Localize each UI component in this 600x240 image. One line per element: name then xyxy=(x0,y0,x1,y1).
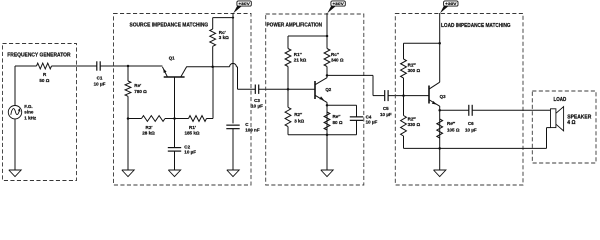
svg-text:LOAD: LOAD xyxy=(554,97,567,103)
svg-text:C1: C1 xyxy=(97,76,103,81)
svg-text:LOAD IMPEDANCE MATCHING: LOAD IMPEDANCE MATCHING xyxy=(441,23,511,29)
svg-text:R2′: R2′ xyxy=(146,125,154,130)
svg-text:Re′: Re′ xyxy=(134,83,142,88)
resistor R1' 185k xyxy=(175,118,189,120)
capacitor C 100nF supply bypass xyxy=(226,124,239,126)
svg-text:C5: C5 xyxy=(383,106,389,111)
svg-text:+30V: +30V xyxy=(332,1,344,6)
wire hop - collector wire jumps rail xyxy=(230,63,237,66)
wire collector of Q1 xyxy=(186,66,229,68)
svg-text:10 µF: 10 µF xyxy=(380,112,392,117)
resistor R2'' 3k xyxy=(287,89,289,107)
wire source to ground xyxy=(14,119,16,170)
wire to ground xyxy=(439,148,441,170)
resistor R 50 xyxy=(37,63,52,69)
wire emitter node to C4 xyxy=(327,104,357,106)
svg-text:R1′: R1′ xyxy=(189,125,197,130)
capacitor C5 10uF xyxy=(384,90,386,101)
transistor Q2 xyxy=(314,81,316,99)
node Re'' bottom xyxy=(326,133,329,136)
wire rail to R1''' xyxy=(404,42,440,44)
svg-text:10 µF: 10 µF xyxy=(366,119,378,124)
svg-text:F.G.: F.G. xyxy=(24,104,32,109)
ground under Re' xyxy=(122,170,134,177)
ground of source xyxy=(9,170,21,177)
capacitor C6 10uF xyxy=(468,105,470,116)
svg-text:100 nF: 100 nF xyxy=(245,127,260,132)
svg-text:Rc″: Rc″ xyxy=(331,52,340,57)
resistor Re''' 105 (emitter) xyxy=(437,119,443,138)
wire to ground xyxy=(127,119,129,171)
node emitter input junction xyxy=(127,65,130,68)
svg-text:330 Ω: 330 Ω xyxy=(408,122,421,127)
svg-text:185 kΩ: 185 kΩ xyxy=(184,130,199,135)
wire +30V rail to Rc' xyxy=(213,17,233,19)
capacitor C3 10uF xyxy=(254,85,256,94)
ground of stage 3 xyxy=(434,170,446,177)
wire emitter node to C6 xyxy=(440,109,469,111)
svg-text:Re‴: Re‴ xyxy=(447,121,456,126)
svg-text:+30V: +30V xyxy=(238,1,250,6)
wire collector output xyxy=(327,74,373,76)
dashed block: load impedance matching xyxy=(395,14,523,186)
svg-text:R1″: R1″ xyxy=(294,52,303,57)
svg-text:SOURCE IMPEDANCE MATCHING: SOURCE IMPEDANCE MATCHING xyxy=(130,23,209,29)
wire +30V rail down to bypass cap xyxy=(232,13,234,123)
dashed block: load xyxy=(532,91,596,163)
dashed block: source impedance matching xyxy=(114,14,252,186)
wire C5 to base of Q3 xyxy=(388,95,429,97)
resistor R2' 28k xyxy=(128,118,142,120)
node emitter output xyxy=(438,109,441,112)
svg-text:1 kHz: 1 kHz xyxy=(24,115,37,120)
supply +30V of stage 1 xyxy=(237,1,251,6)
svg-text:10 µF: 10 µF xyxy=(184,150,196,155)
svg-text:Q3: Q3 xyxy=(440,94,446,99)
svg-text:780 Ω: 780 Ω xyxy=(134,89,147,94)
capacitor C1 10uF xyxy=(96,61,98,70)
wire C4 bottom return xyxy=(327,134,357,136)
svg-text:10 µF: 10 µF xyxy=(465,127,477,132)
wire R to C1 xyxy=(52,65,97,67)
wire C1 to emitter node xyxy=(100,65,162,67)
capacitor C4 10uF xyxy=(350,116,363,118)
wire R2'' bottom to ground node xyxy=(288,134,327,136)
capacitor C2 10uF xyxy=(174,119,176,148)
svg-text:+30V: +30V xyxy=(445,1,457,6)
ground of stage 2 xyxy=(321,170,333,177)
svg-text:80 Ω: 80 Ω xyxy=(333,120,343,125)
dashed block: frequency generator xyxy=(3,44,77,181)
rail branch to R1'' xyxy=(288,35,327,37)
transistor Q1 xyxy=(164,76,185,78)
svg-text:340 Ω: 340 Ω xyxy=(331,57,344,62)
svg-text:50 Ω: 50 Ω xyxy=(39,78,49,83)
svg-text:21 kΩ: 21 kΩ xyxy=(294,57,307,62)
svg-text:POWER AMPLIFICATION: POWER AMPLIFICATION xyxy=(267,23,323,29)
node Re' bottom / R2' left / ground xyxy=(127,117,130,120)
svg-text:FREQUENCY GENERATOR: FREQUENCY GENERATOR xyxy=(7,52,71,58)
node collector of Q2 xyxy=(326,74,329,77)
supply +30V of stage 3 xyxy=(444,1,458,6)
svg-text:3 kΩ: 3 kΩ xyxy=(294,119,304,124)
svg-text:C3: C3 xyxy=(254,98,260,103)
svg-text:Q2: Q2 xyxy=(325,87,331,92)
wire emitter of Q3 down xyxy=(439,106,441,148)
svg-text:Re″: Re″ xyxy=(333,114,342,119)
node bottom rail xyxy=(438,147,441,150)
svg-text:105 Ω: 105 Ω xyxy=(447,127,460,132)
resistor Re'' 80 (emitter) xyxy=(324,112,330,130)
wire C6 to speaker xyxy=(472,109,550,111)
svg-text:4 Ω: 4 Ω xyxy=(567,120,575,126)
svg-text:R2″: R2″ xyxy=(294,112,303,117)
ground under C xyxy=(227,170,239,177)
node collector / Rc' / R1' xyxy=(211,66,214,69)
svg-text:Q1: Q1 xyxy=(169,56,175,61)
node rail branch xyxy=(438,42,441,45)
svg-text:sine: sine xyxy=(24,110,34,115)
node base of Q2 xyxy=(287,88,290,91)
wire source to R xyxy=(14,66,16,106)
node base of Q1 / C2 / R1' xyxy=(173,117,176,120)
ground under C2 xyxy=(168,170,180,177)
resistor Rc'' 340 xyxy=(324,49,330,67)
supply +30V of stage 2 xyxy=(331,1,345,6)
resistor R1''' 300 xyxy=(401,59,407,78)
svg-text:28 kΩ: 28 kΩ xyxy=(142,130,155,135)
svg-text:3 kΩ: 3 kΩ xyxy=(219,35,229,40)
svg-text:C6: C6 xyxy=(468,121,474,126)
transistor Q3 xyxy=(428,86,430,104)
svg-text:10 µF: 10 µF xyxy=(94,82,106,87)
wire collector to C3 xyxy=(236,66,237,68)
speaker symbol xyxy=(551,109,556,128)
resistor Re' 780 xyxy=(127,66,129,81)
node base divider xyxy=(402,94,405,97)
resistor Rc' 3k xyxy=(212,46,214,67)
svg-text:10 µF: 10 µF xyxy=(251,104,263,109)
dashed block: power amplification xyxy=(266,14,364,185)
wire C3 to base of Q2 xyxy=(259,88,315,90)
wire emitter of Q2 down xyxy=(326,102,328,170)
resistor R1'' 21k xyxy=(285,49,291,67)
wire +30V rail down xyxy=(326,13,328,49)
resistor R2''' 330 xyxy=(403,96,405,116)
node emitter / C4 branch xyxy=(326,104,329,107)
wire bottom return rail xyxy=(404,147,547,149)
wire +30V rail down to collector xyxy=(439,13,441,82)
wire speaker return xyxy=(547,127,551,129)
source F.G. sine 1 kHz xyxy=(8,106,21,119)
svg-text:300 Ω: 300 Ω xyxy=(408,68,421,73)
